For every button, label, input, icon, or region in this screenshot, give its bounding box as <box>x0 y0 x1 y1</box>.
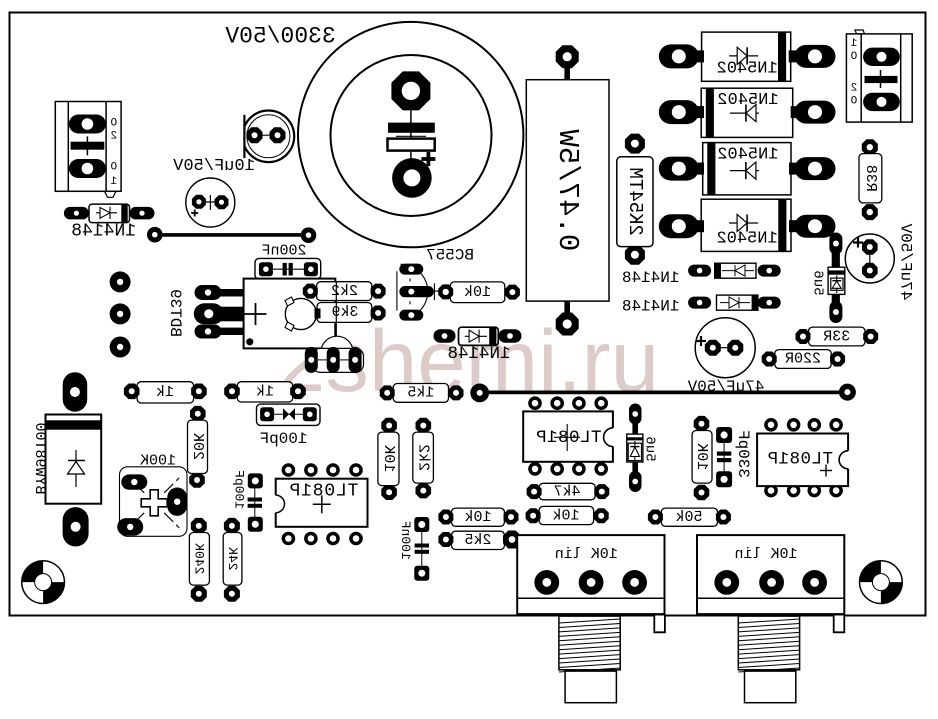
pad P3-1 <box>121 474 147 489</box>
svg-text:1k: 1k <box>156 384 174 401</box>
pad D7-a <box>829 233 842 255</box>
svg-text:O: O <box>110 162 117 174</box>
pad C8-1 <box>248 473 263 488</box>
resistor R5 body <box>526 80 609 301</box>
pad R9-a <box>762 352 777 367</box>
pad C6-1 <box>716 427 732 443</box>
plus mark P3 <box>141 490 167 516</box>
pad U2-8 <box>594 462 608 476</box>
resistor R8 body <box>809 327 865 346</box>
transistor Q3 outline <box>401 264 428 318</box>
pad W3-a <box>470 384 489 403</box>
resistor R18 body <box>539 483 595 500</box>
resistor R10 body <box>378 432 399 486</box>
tab P1 <box>654 616 665 633</box>
op-amp U1 body <box>267 479 368 527</box>
pad R7-a <box>862 139 878 155</box>
svg-text:10k: 10k <box>552 507 579 524</box>
pad P2-3 <box>802 570 827 595</box>
potentiometer P1 body <box>517 535 664 614</box>
wire C8 <box>254 485 256 520</box>
svg-text:1N5402: 1N5402 <box>717 59 778 78</box>
resistor R4 body <box>393 384 448 403</box>
wire C4 <box>869 247 871 271</box>
pad U3-8 <box>829 484 843 498</box>
svg-text:1: 1 <box>110 176 117 188</box>
pad R11-b <box>416 483 432 499</box>
svg-text:24K: 24K <box>225 547 240 571</box>
pad T5-2 <box>270 127 286 143</box>
pad X2-2 <box>863 93 900 111</box>
pad U3-4 <box>829 418 843 432</box>
potentiometer P2 body <box>697 535 844 614</box>
pad R6-b <box>625 245 645 265</box>
plus mark U1 <box>313 503 331 505</box>
pad W3-b <box>839 384 856 401</box>
pad R18-b <box>594 484 609 499</box>
fiducial bottom-left <box>22 561 65 604</box>
svg-text:20K: 20K <box>189 433 206 460</box>
pad R13-b <box>189 472 205 488</box>
resistor R11 body <box>413 432 434 483</box>
pad R12-a <box>694 416 710 432</box>
pad U2-1 <box>528 396 542 410</box>
pad P3-2 <box>117 518 143 536</box>
pad P3-3 <box>167 488 187 516</box>
pad U3-6 <box>787 484 801 498</box>
svg-text:TL081P: TL081P <box>767 450 833 470</box>
pad C4-1 <box>862 239 878 255</box>
svg-text:3300/50V: 3300/50V <box>225 24 336 50</box>
resistor R2 body <box>317 303 372 323</box>
svg-text:1k: 1k <box>256 383 274 400</box>
pad C1 plus <box>391 71 430 110</box>
pad D3-a <box>690 50 704 62</box>
pad R7-b <box>862 204 878 220</box>
pad P2-1 <box>714 570 739 595</box>
pad R16-b <box>191 586 207 602</box>
wire C3 <box>266 268 311 270</box>
pad U3-2 <box>787 418 801 432</box>
diode D9 body <box>717 295 758 310</box>
label X2 2O <box>850 83 857 108</box>
pad T5-1 <box>247 127 263 143</box>
pad R14-a <box>124 384 140 400</box>
pad P1-3 <box>622 570 647 595</box>
pad D4-a <box>690 106 704 118</box>
svg-text:10k: 10k <box>464 509 491 526</box>
pad U1-1 <box>282 463 296 477</box>
wire C6 <box>723 440 725 475</box>
pad R21-a <box>438 532 453 547</box>
pad W1-a <box>147 227 163 243</box>
svg-text:10uF/50V: 10uF/50V <box>172 157 254 176</box>
pad R1-a <box>303 284 318 299</box>
capacitor C2 outline <box>186 178 235 227</box>
pad R14-b <box>191 384 207 400</box>
plus mark C5 <box>696 340 706 342</box>
pad P1-2 <box>579 570 604 595</box>
fiducial bottom-right <box>860 561 903 604</box>
pad R15-b <box>290 384 306 400</box>
svg-text:1N5402: 1N5402 <box>716 229 777 248</box>
pad R13-a <box>190 406 206 422</box>
svg-text:10K lin: 10K lin <box>734 546 797 563</box>
pad U2-4 <box>594 396 608 410</box>
wire W2 <box>335 282 337 351</box>
pad R18-a <box>527 484 542 499</box>
pad U1-7 <box>326 532 340 546</box>
svg-text:1N4148: 1N4148 <box>622 269 680 287</box>
pad D9-a <box>688 297 711 309</box>
pad U1-5 <box>282 532 296 546</box>
pad R20-a <box>438 510 453 525</box>
transistor Q2 outline <box>312 336 363 372</box>
pad U2-5 <box>528 462 542 476</box>
svg-text:1k5: 1k5 <box>407 385 434 402</box>
pad C9-1 <box>414 517 429 532</box>
jumper bar X2 <box>865 76 898 83</box>
resistor R20 body <box>452 508 505 526</box>
svg-text:240K: 240K <box>192 543 207 574</box>
pad W1-b <box>301 227 317 243</box>
pad D1-k <box>130 207 155 220</box>
svg-text:5u6: 5u6 <box>810 270 826 295</box>
zener D10 body <box>627 422 643 473</box>
pad C7-2 <box>303 407 317 421</box>
svg-text:O: O <box>850 96 857 108</box>
pad C5-2 <box>727 340 743 356</box>
pad R9-b <box>830 352 845 367</box>
svg-text:2K54TM: 2K54TM <box>624 167 646 235</box>
svg-text:2k2: 2k2 <box>415 444 432 471</box>
pad C2-1 <box>192 195 206 209</box>
svg-text:33R: 33R <box>823 328 850 345</box>
pad R10-a <box>381 418 397 434</box>
pad D3-k <box>789 50 796 62</box>
svg-text:2k5: 2k5 <box>464 532 491 549</box>
pad D5-k <box>789 163 796 175</box>
svg-text:4k7: 4k7 <box>553 483 580 500</box>
pad X2-1 <box>863 48 900 66</box>
svg-text:10K lin: 10K lin <box>555 546 618 563</box>
svg-text:TL081P: TL081P <box>289 482 359 502</box>
pad R4-a <box>380 385 395 400</box>
pad R4-b <box>449 385 464 400</box>
tick C1 <box>396 135 426 137</box>
svg-text:1N5402: 1N5402 <box>717 146 778 165</box>
diode D3 body <box>702 32 791 81</box>
svg-text:BC557: BC557 <box>426 247 474 265</box>
terminal block X2 <box>846 34 912 122</box>
pad U2-7 <box>572 462 586 476</box>
resistor R14 body <box>137 382 194 403</box>
resistor R9 body <box>775 350 831 369</box>
pad Q3-1 <box>399 264 423 275</box>
pad X1-1 <box>69 115 106 134</box>
pad Q3-2 <box>399 286 433 297</box>
pad U3-3 <box>808 418 822 432</box>
resistor R12 body <box>692 431 712 484</box>
pad D6-k <box>789 220 796 232</box>
pad Q1-2 <box>194 303 224 324</box>
resistor R3 body <box>450 282 505 303</box>
svg-text:5u6: 5u6 <box>642 436 658 461</box>
trimmer P3 outline <box>120 467 188 537</box>
resistor R22 body <box>661 508 717 526</box>
pad Q2-2 <box>327 347 340 373</box>
svg-text:O: O <box>110 118 117 130</box>
plus mark C1 <box>421 157 435 161</box>
polarity bar C1 <box>388 123 435 133</box>
diode D6 body <box>701 199 791 251</box>
pad R8-b <box>863 329 878 344</box>
pad C7-1 <box>260 407 274 421</box>
pad D10-k <box>629 471 642 492</box>
diode D4 body <box>701 88 793 137</box>
pad R3-a <box>438 284 453 299</box>
capacitor C1 inner ring <box>331 55 492 216</box>
resistor R17 body <box>223 533 242 586</box>
pad Q3-3 <box>399 310 423 321</box>
resistor R16 body <box>189 533 209 586</box>
pad C2-2 <box>215 195 229 209</box>
svg-text:100pF: 100pF <box>232 470 247 509</box>
pad D6-a <box>690 220 704 232</box>
capacitor C4 outline <box>845 234 894 283</box>
wire C9 <box>421 529 423 568</box>
svg-text:2k2: 2k2 <box>331 283 358 300</box>
pad U1-8 <box>349 532 363 546</box>
capacitor C7 outline <box>257 404 321 425</box>
svg-text:10K: 10K <box>693 443 710 470</box>
svg-text:47uF/50V: 47uF/50V <box>897 223 915 300</box>
wire W1 <box>155 233 309 237</box>
svg-text:BDT39: BDT39 <box>166 289 184 337</box>
pad R19-b <box>594 508 609 523</box>
svg-text:10k: 10k <box>464 284 491 301</box>
diode D5 body <box>703 143 791 195</box>
pad R22-b <box>716 510 731 525</box>
pad C3-2 <box>304 262 318 276</box>
pad via3 <box>110 337 131 358</box>
pad Q1-1 <box>195 285 222 300</box>
pad C8-2 <box>248 517 263 532</box>
pad U1-2 <box>304 463 318 477</box>
pad D9-k <box>758 297 781 309</box>
wire C2 <box>193 201 228 203</box>
shaft P1 <box>559 616 620 703</box>
pad R15-a <box>224 384 240 400</box>
pad U2-6 <box>550 462 564 476</box>
resistor R6 body <box>617 157 653 247</box>
pad C1 minus <box>392 158 432 198</box>
svg-text:O: O <box>850 51 857 63</box>
pad U1-4 <box>349 463 363 477</box>
bar Q1 <box>315 309 321 319</box>
resistor R7 body <box>859 154 882 203</box>
pad X1-2 <box>69 159 106 178</box>
plus mark C2 <box>191 212 198 214</box>
cap symbol C8 <box>248 498 262 502</box>
wire W3 <box>480 390 848 394</box>
pad R19-a <box>526 508 541 523</box>
pad R3-b <box>505 285 520 300</box>
pad R12-b <box>694 485 710 501</box>
tab X2 <box>855 30 865 34</box>
pad P1-1 <box>534 570 559 595</box>
pad Q1-3 <box>195 325 222 339</box>
svg-text:1N4148: 1N4148 <box>622 297 680 315</box>
svg-text:100nF: 100nF <box>398 521 413 560</box>
svg-text:3k9: 3k9 <box>331 304 358 321</box>
pad R1-b <box>371 284 386 299</box>
plus mark C4 <box>853 241 863 243</box>
pad D2-k <box>499 329 522 343</box>
diode D8 body <box>715 263 756 278</box>
pad U2-3 <box>572 396 586 410</box>
cap symbol C3 <box>283 263 287 276</box>
pad R11-a <box>416 418 432 434</box>
svg-text:1N4148: 1N4148 <box>71 221 136 241</box>
pad U3-1 <box>764 418 778 432</box>
pad D10-a <box>629 404 642 425</box>
wire C7 <box>267 413 310 415</box>
pad R21-b <box>503 531 521 549</box>
pad C3-1 <box>259 262 273 276</box>
svg-text:10K: 10K <box>380 445 397 472</box>
resistor R21 body <box>452 531 505 549</box>
svg-text:200nF: 200nF <box>261 242 306 259</box>
pad via1 <box>110 271 131 292</box>
cap symbol C7 <box>283 408 289 420</box>
capacitor C5 outline <box>695 318 755 378</box>
pad via2 <box>110 303 131 324</box>
pad R22-a <box>648 510 663 525</box>
wire C5 <box>713 347 736 349</box>
terminal block X1 <box>55 102 121 198</box>
capacitor C1 outer ring <box>298 22 523 247</box>
pad U1-3 <box>326 463 340 477</box>
pad D5-a <box>690 163 704 175</box>
resistor R1 body <box>317 282 372 301</box>
transistor Q1 BDT39 body <box>244 279 336 349</box>
resistor R19 body <box>539 506 594 524</box>
transistor T5 outline <box>238 108 294 165</box>
pad U2-2 <box>550 396 564 410</box>
pad U3-7 <box>808 484 822 498</box>
op-amp U2 body <box>523 411 622 461</box>
svg-text:R38: R38 <box>862 165 879 192</box>
svg-text:100pF: 100pF <box>259 430 307 448</box>
svg-text:47uF/50V: 47uF/50V <box>687 378 764 396</box>
pad P2-2 <box>759 570 784 595</box>
pin stems Q1 <box>205 289 245 297</box>
pad R5-a <box>556 45 579 68</box>
pad R17-b <box>224 586 240 602</box>
pad R16-a <box>191 518 207 534</box>
pad R5-b <box>556 313 579 336</box>
label O2 <box>110 118 117 143</box>
svg-text:330pF: 330pF <box>734 430 752 478</box>
cap symbol C6 <box>717 452 731 456</box>
svg-text:1: 1 <box>850 38 857 50</box>
diode D1 1N4148 <box>89 204 130 223</box>
pad Q2-3 <box>349 347 362 373</box>
body bar C1 <box>388 139 435 151</box>
pad R8-a <box>796 329 811 344</box>
svg-text:0.47/5W: 0.47/5W <box>551 129 584 251</box>
plus mark U3 <box>820 470 832 472</box>
resistor R15 body <box>237 382 292 402</box>
pad C9-2 <box>414 566 429 581</box>
op-amp U3 body <box>757 434 857 487</box>
pad U3-5 <box>764 484 778 498</box>
pad D11-a <box>63 372 87 412</box>
pad D11-k <box>63 507 89 546</box>
svg-text:2: 2 <box>110 131 117 143</box>
pad Q2-1 <box>305 347 318 373</box>
capacitor C3 outline <box>255 258 321 279</box>
pad R2-b <box>371 306 386 321</box>
zener D7 body <box>828 252 845 306</box>
tab P2 <box>834 616 845 633</box>
jumper bar X1 <box>71 142 105 150</box>
pad R20-b <box>504 510 519 525</box>
pad R17-a <box>224 518 240 534</box>
pad C5-1 <box>705 340 721 356</box>
pad D7-k <box>829 301 842 323</box>
svg-text:1N4148: 1N4148 <box>447 344 510 364</box>
pad D4-k <box>791 106 796 118</box>
svg-text:1N5402: 1N5402 <box>717 91 778 110</box>
resistor R13 body <box>188 420 208 473</box>
pad R10-b <box>381 484 397 500</box>
diode D2 1N4148 <box>459 327 499 345</box>
pad D8-a <box>688 265 711 277</box>
pad D8-k <box>758 265 781 277</box>
pad R6-a <box>625 134 645 154</box>
pad C6-2 <box>716 471 732 487</box>
pad U1-6 <box>304 532 318 546</box>
pin stems R5 <box>564 60 570 82</box>
svg-text:220R: 220R <box>785 351 821 368</box>
label X2 1O <box>850 38 857 63</box>
pad D2-a <box>434 329 456 343</box>
svg-text:2: 2 <box>851 83 858 95</box>
cap symbol C9 <box>415 544 429 548</box>
pad C4-2 <box>862 263 878 279</box>
shaft P2 <box>738 616 799 703</box>
pad D1-a <box>64 207 89 220</box>
diode D11 body <box>46 415 102 504</box>
label O1 <box>110 162 117 189</box>
svg-text:50k: 50k <box>675 509 702 526</box>
wire C1 center <box>410 105 412 160</box>
svg-text:TL081P: TL081P <box>535 428 601 448</box>
